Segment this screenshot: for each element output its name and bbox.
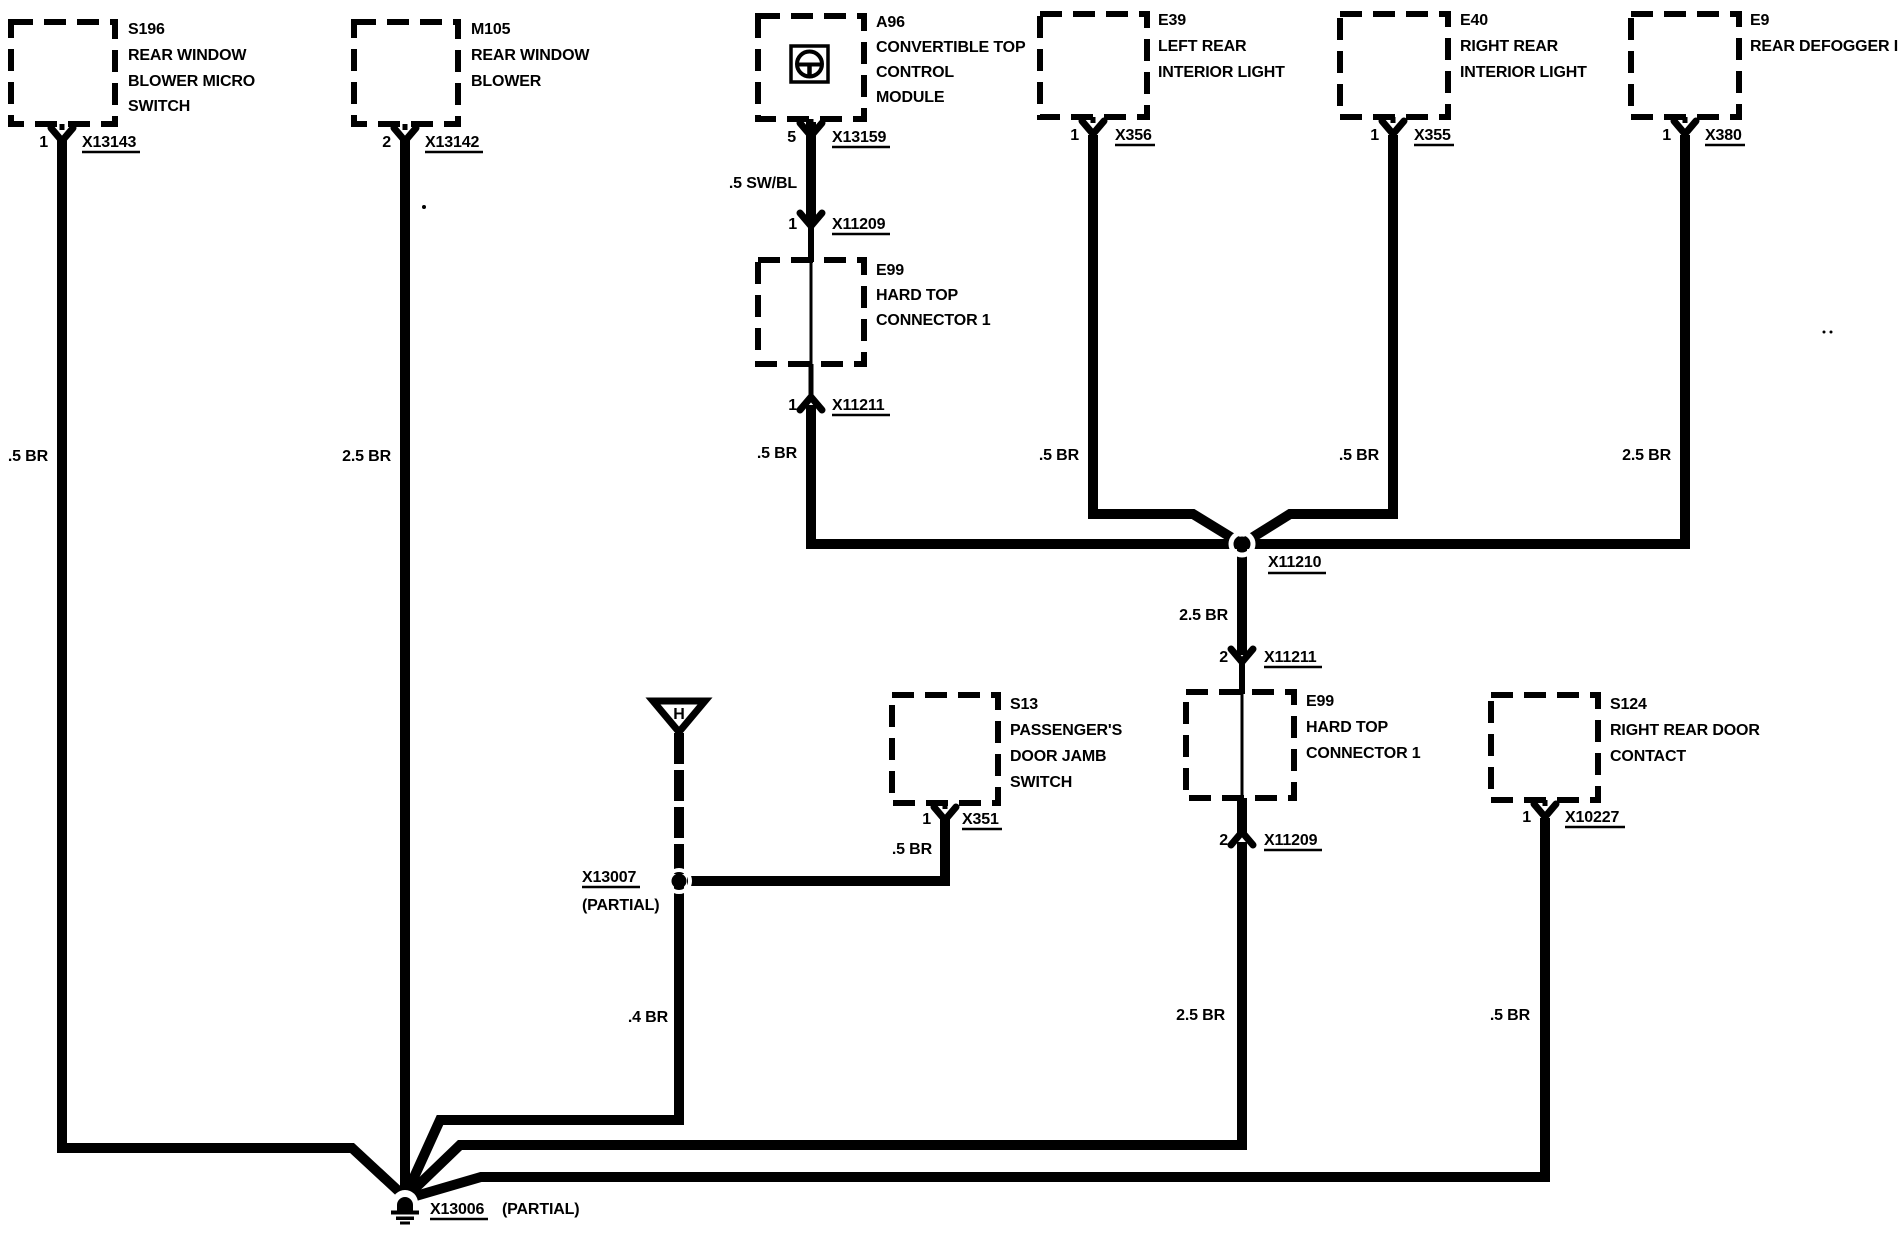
switch S13 box <box>892 695 998 803</box>
connector E99 box (lower) <box>1186 692 1294 798</box>
wire A96 pin5 to X11209 (.5 SW/BL) <box>806 122 816 222</box>
svg-text:CONVERTIBLE TOP: CONVERTIBLE TOP <box>876 39 1026 56</box>
svg-text:SWITCH: SWITCH <box>1010 774 1072 791</box>
svg-text:.4 BR: .4 BR <box>628 1009 669 1026</box>
svg-text:DOOR JAMB: DOOR JAMB <box>1010 748 1106 765</box>
wire X11209 to ground (2.5 BR) <box>407 842 1242 1196</box>
svg-text:2: 2 <box>1219 649 1228 666</box>
wire H antenna dashed lead X13007 <box>674 733 684 874</box>
svg-text:INTERIOR LIGHT: INTERIOR LIGHT <box>1158 64 1285 81</box>
pin 2 arrow X11209 (lower, socket) <box>1231 832 1253 845</box>
module A96 steering wheel icon <box>791 46 828 82</box>
wire E40 to junction (.5 BR) <box>1242 135 1393 544</box>
wire A96 branch to junction (.5 BR) <box>811 405 1242 544</box>
defogger E9 box <box>1631 14 1739 117</box>
svg-text:X11209: X11209 <box>832 216 886 233</box>
svg-text:HARD TOP: HARD TOP <box>1306 719 1389 736</box>
svg-text:REAR DEFOGGER I: REAR DEFOGGER I <box>1750 38 1898 55</box>
wire X11209 stub into E99 top <box>808 226 814 262</box>
antenna symbol H <box>653 701 705 732</box>
pin 1 arrow X380 <box>1674 117 1696 134</box>
svg-text:(PARTIAL): (PARTIAL) <box>582 897 659 914</box>
pin 1 arrow X356 <box>1082 117 1104 134</box>
wire S124 to ground (.5 BR) <box>409 818 1545 1198</box>
svg-text:SWITCH: SWITCH <box>128 98 190 115</box>
pin 1 arrow X10227 <box>1534 800 1556 817</box>
motor M105 box <box>354 22 458 124</box>
wire thin through E99 connector 1 <box>810 262 813 364</box>
svg-text:.5 BR: .5 BR <box>8 448 49 465</box>
pin 5 arrow X13159 <box>800 119 822 136</box>
svg-text:E40: E40 <box>1460 12 1488 29</box>
scan artifact dot <box>422 205 426 209</box>
svg-text:.5 BR: .5 BR <box>1039 447 1080 464</box>
svg-text:1: 1 <box>1522 809 1531 826</box>
svg-text:X13143: X13143 <box>82 134 137 151</box>
svg-text:1: 1 <box>788 216 797 233</box>
svg-text:CONNECTOR 1: CONNECTOR 1 <box>876 312 991 329</box>
svg-text:X356: X356 <box>1115 127 1152 144</box>
svg-text:S13: S13 <box>1010 696 1038 713</box>
svg-text:BLOWER MICRO: BLOWER MICRO <box>128 73 255 90</box>
svg-text:S196: S196 <box>128 21 165 38</box>
svg-text:MODULE: MODULE <box>876 89 945 106</box>
svg-text:A96: A96 <box>876 14 905 31</box>
svg-text:.5 SW/BL: .5 SW/BL <box>729 175 798 192</box>
pin 1 arrow X11211 (upper, socket) <box>800 397 822 410</box>
pin 2 arrow X13142 <box>394 124 416 141</box>
svg-text:X11209: X11209 <box>1264 832 1318 849</box>
node label X11210 <box>1268 554 1326 573</box>
svg-text:.5 BR: .5 BR <box>1490 1007 1531 1024</box>
pin 1 arrow X351 <box>934 803 956 820</box>
svg-text:E99: E99 <box>876 262 904 279</box>
wire M105 ground lead (2.5 BR) <box>400 140 410 1198</box>
pin 1 arrow X13143 <box>51 124 73 141</box>
svg-text:2.5 BR: 2.5 BR <box>342 448 391 465</box>
svg-text:E9: E9 <box>1750 12 1770 29</box>
wire E99 lower bottom to X11209 <box>1237 798 1247 836</box>
wire X13007 node to ground (.4 BR) <box>406 884 679 1195</box>
svg-text:2.5 BR: 2.5 BR <box>1176 1007 1225 1024</box>
ground symbol X13006 <box>391 1190 419 1225</box>
svg-text:X11211: X11211 <box>832 397 885 414</box>
svg-text:X13159: X13159 <box>832 129 887 146</box>
wire E99 bottom to X11211 <box>809 364 814 400</box>
wire E39 to junction (.5 BR) <box>1093 135 1242 544</box>
svg-text:E39: E39 <box>1158 12 1186 29</box>
svg-text:1: 1 <box>1070 127 1079 144</box>
svg-text:2: 2 <box>1219 832 1228 849</box>
svg-text:RIGHT REAR DOOR: RIGHT REAR DOOR <box>1610 722 1760 739</box>
node X13007 <box>668 870 690 892</box>
svg-text:(PARTIAL): (PARTIAL) <box>502 1201 579 1218</box>
wire junction X11210 down to X11211 (2.5 BR) <box>1237 544 1247 655</box>
svg-text:RIGHT REAR: RIGHT REAR <box>1460 38 1559 55</box>
pin 1 arrow X355 <box>1382 117 1404 134</box>
svg-text:BLOWER: BLOWER <box>471 73 542 90</box>
svg-text:REAR WINDOW: REAR WINDOW <box>471 47 590 64</box>
svg-text:X380: X380 <box>1705 127 1742 144</box>
wire X11211 stub into E99 connector 1 (lower) <box>1239 660 1245 694</box>
wire thin through E99 connector 1 (lower) <box>1241 694 1244 798</box>
svg-text:X13142: X13142 <box>425 134 480 151</box>
lamp E40 box <box>1340 14 1448 117</box>
svg-text:2.5 BR: 2.5 BR <box>1179 607 1228 624</box>
svg-text:INTERIOR LIGHT: INTERIOR LIGHT <box>1460 64 1587 81</box>
svg-text:.5 BR: .5 BR <box>892 841 933 858</box>
svg-text:X355: X355 <box>1414 127 1451 144</box>
wire S13 pin to X13007 node (.5 BR) <box>687 816 945 881</box>
svg-text:HARD TOP: HARD TOP <box>876 287 959 304</box>
svg-text:X10227: X10227 <box>1565 809 1620 826</box>
svg-text:5: 5 <box>787 129 796 146</box>
wire E9 to junction (2.5 BR) <box>1242 135 1685 544</box>
svg-text:H: H <box>673 706 684 723</box>
wire S196 ground lead (.5 BR) <box>62 140 406 1198</box>
switch S124 box <box>1491 695 1598 800</box>
pin 1 arrow X11209 (upper) <box>800 213 822 226</box>
svg-text:X13006: X13006 <box>430 1201 485 1218</box>
pin 2 arrow X11211 (lower) <box>1231 649 1253 662</box>
svg-text:1: 1 <box>788 397 797 414</box>
switch S196 box <box>11 22 115 124</box>
svg-text:.5 BR: .5 BR <box>757 445 798 462</box>
node label X13007 (PARTIAL) <box>582 869 659 914</box>
lamp E39 box <box>1040 14 1147 117</box>
svg-text:CONNECTOR 1: CONNECTOR 1 <box>1306 745 1421 762</box>
svg-text:X351: X351 <box>962 811 999 828</box>
svg-text:CONTROL: CONTROL <box>876 64 954 81</box>
svg-text:X13007: X13007 <box>582 869 637 886</box>
svg-text:1: 1 <box>922 811 931 828</box>
svg-text:LEFT REAR: LEFT REAR <box>1158 38 1247 55</box>
svg-text:X11210: X11210 <box>1268 554 1322 571</box>
svg-text:S124: S124 <box>1610 696 1647 713</box>
svg-text:REAR WINDOW: REAR WINDOW <box>128 47 247 64</box>
svg-text:CONTACT: CONTACT <box>1610 748 1686 765</box>
svg-text:M105: M105 <box>471 21 511 38</box>
ground label X13006 (PARTIAL) <box>430 1201 579 1219</box>
module A96 box <box>758 16 864 119</box>
node X11210 junction <box>1231 533 1253 555</box>
svg-text:1: 1 <box>1662 127 1671 144</box>
svg-text:1: 1 <box>39 134 48 151</box>
scan artifact dots <box>1823 331 1826 334</box>
svg-text:2: 2 <box>382 134 391 151</box>
svg-text:PASSENGER'S: PASSENGER'S <box>1010 722 1123 739</box>
svg-text:.5 BR: .5 BR <box>1339 447 1380 464</box>
connector E99 box (upper) <box>758 260 864 364</box>
svg-text:E99: E99 <box>1306 693 1334 710</box>
svg-text:1: 1 <box>1370 127 1379 144</box>
svg-text:X11211: X11211 <box>1264 649 1317 666</box>
svg-text:2.5 BR: 2.5 BR <box>1622 447 1671 464</box>
